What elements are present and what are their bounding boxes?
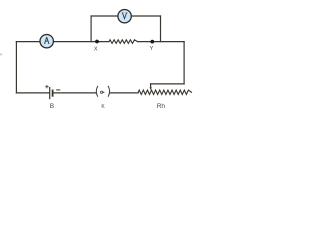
svg-text:B: B bbox=[50, 103, 54, 110]
svg-text:Rh: Rh bbox=[157, 103, 166, 110]
svg-text:X: X bbox=[94, 47, 98, 53]
svg-text:Y: Y bbox=[150, 46, 154, 52]
